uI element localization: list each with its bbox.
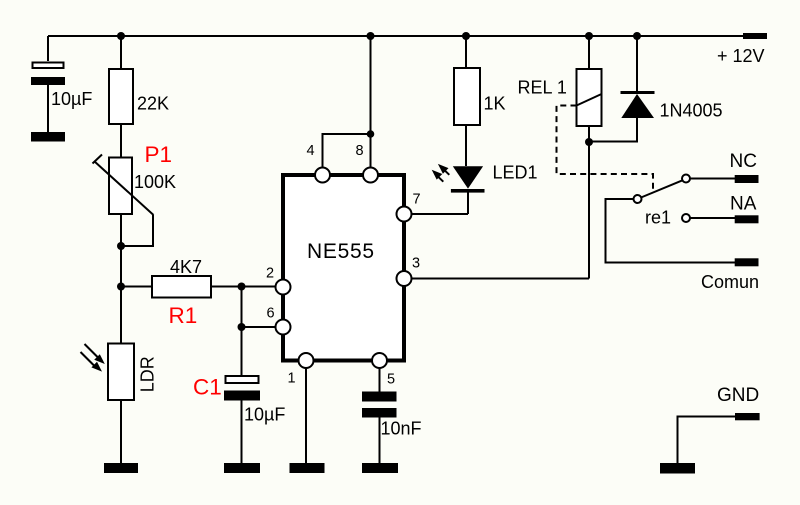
svg-text:1: 1: [288, 371, 296, 387]
wire tap to 4K7: [121, 286, 152, 288]
wire GND terminal to ground: [678, 417, 736, 464]
node junction pin6: [238, 323, 246, 331]
relay REL1 coil body: [577, 69, 602, 126]
svg-text:REL 1: REL 1: [518, 78, 567, 98]
wire 10nF to ground: [379, 418, 381, 464]
node junction pin2: [238, 283, 246, 291]
wire capacitor to ground: [47, 85, 49, 132]
LED emission arrow 1: [441, 167, 449, 175]
ground (under LDR): [104, 463, 138, 473]
switch re1 pivot contact: [634, 195, 642, 203]
svg-text:8: 8: [356, 143, 364, 159]
wire 4K7 to node: [211, 286, 242, 288]
pin 1: [299, 353, 314, 368]
ground (under pin 1): [290, 463, 325, 473]
wire wiper to lower terminal: [121, 215, 153, 246]
wire +12V top rail: [48, 35, 743, 37]
wire common to terminal: [606, 199, 736, 263]
node junction rail/22K: [117, 32, 125, 40]
switch NA contact: [682, 214, 690, 222]
svg-text:100K: 100K: [134, 172, 176, 192]
LDR light arrow 1: [85, 344, 99, 358]
wire pin 3 to relay branch: [412, 278, 590, 280]
wire node down to C1: [241, 327, 243, 375]
LED emission arrow 2: [435, 174, 443, 182]
node junction bracket/riser: [367, 130, 375, 138]
wire node to pin 2: [242, 286, 276, 288]
wire rail to 1K: [465, 36, 467, 68]
node junction rail/1K: [462, 32, 470, 40]
potentiometer P1 body: [109, 158, 132, 215]
LDR light arrow 2: [81, 352, 96, 367]
svg-text:6: 6: [267, 306, 275, 322]
LED LED1: [453, 166, 483, 188]
pin 8: [363, 168, 378, 183]
terminal GND: [735, 413, 760, 420]
svg-text:1K: 1K: [484, 94, 506, 114]
node junction rail/relay: [585, 32, 593, 40]
capacitor 10nF: [362, 392, 397, 402]
wire capacitor lead from rail: [47, 36, 49, 61]
terminal NC: [735, 175, 759, 183]
svg-text:GND: GND: [717, 385, 759, 406]
svg-text:Comun: Comun: [701, 272, 759, 292]
potentiometer P1 wiper end tick: [93, 155, 103, 164]
svg-text:LDR: LDR: [137, 356, 157, 392]
diode D1 1N4005: [621, 91, 655, 94]
resistor 1K: [454, 68, 480, 125]
relay armature diagonal: [577, 94, 602, 106]
wire LDR to ground: [120, 400, 122, 463]
svg-text:NE555: NE555: [307, 240, 375, 263]
node junction rail/pin8: [367, 32, 375, 40]
node junction relay/diode: [585, 138, 593, 146]
svg-text:5: 5: [387, 372, 395, 388]
wire rail to pin 8: [370, 36, 372, 168]
op-amp U1 NE555 body: [283, 175, 404, 361]
switch re1 arm: [641, 180, 683, 197]
ground (GND): [660, 463, 695, 474]
wire relay coil to node: [588, 126, 590, 142]
resistor R1 4K7: [152, 276, 211, 298]
ground (under 10uF): [31, 132, 65, 142]
terminal Comun: [735, 258, 759, 266]
svg-text:4K7: 4K7: [170, 257, 202, 277]
wire LED to pin 7: [467, 193, 469, 215]
pin 7: [397, 207, 412, 222]
pin 6: [276, 320, 291, 335]
wire rail to 22K: [120, 36, 122, 69]
pin 4: [315, 168, 330, 183]
wire P1 bottom to LDR: [120, 214, 122, 343]
svg-text:R1: R1: [169, 303, 198, 328]
svg-text:LED1: LED1: [493, 163, 538, 183]
wire rail to diode cathode: [636, 36, 638, 91]
wire pin4 bracket to pin8 riser: [323, 134, 371, 168]
wire node to pin 6: [242, 326, 276, 328]
wire C1 to ground: [241, 401, 243, 464]
svg-text:+ 12V: + 12V: [717, 46, 765, 66]
svg-text:10µF: 10µF: [244, 405, 285, 425]
svg-text:C1: C1: [193, 374, 222, 399]
svg-text:NA: NA: [730, 194, 757, 215]
pin 5: [372, 353, 387, 368]
wire relay/diode node down to pin3 wire: [588, 142, 590, 279]
terminal +12V: [743, 33, 767, 39]
svg-text:1N4005: 1N4005: [660, 101, 723, 121]
svg-text:10nF: 10nF: [381, 419, 422, 439]
svg-text:22K: 22K: [137, 94, 169, 114]
resistor 22K: [109, 69, 133, 124]
pin 3: [397, 271, 412, 286]
pin 2: [276, 280, 291, 295]
wire NA contact to terminal: [690, 217, 735, 219]
wire node down to pin6 node: [241, 287, 243, 328]
svg-text:3: 3: [412, 256, 420, 272]
ground (under 10nF): [362, 463, 398, 473]
wire rail to relay coil: [588, 36, 590, 69]
terminal NA: [735, 215, 759, 223]
node junction P1 wiper: [117, 242, 125, 250]
svg-text:7: 7: [413, 192, 421, 208]
potentiometer P1 wiper arm: [94, 161, 154, 215]
wire 22K to P1: [120, 124, 122, 158]
svg-text:2: 2: [266, 266, 274, 282]
wire pin 5 to 10nF: [379, 368, 381, 392]
svg-text:re1: re1: [645, 208, 671, 228]
capacitor 10uF (top-left, polarized): [33, 63, 64, 69]
svg-text:NC: NC: [730, 151, 757, 172]
ground (under C1): [224, 463, 260, 473]
wire diode anode to node: [589, 118, 637, 142]
dashed mechanical link relay to switch: [557, 106, 654, 191]
node junction R1 tap: [117, 283, 125, 291]
svg-text:P1: P1: [145, 142, 173, 167]
wire NC contact to terminal: [690, 178, 735, 180]
svg-text:4: 4: [307, 143, 315, 159]
svg-text:10µF: 10µF: [51, 89, 92, 109]
capacitor C1 (polarized): [226, 376, 259, 383]
wire pin 1 to ground: [305, 368, 307, 463]
node junction rail/diode: [633, 32, 641, 40]
photoresistor LDR body: [108, 344, 134, 401]
switch NC contact: [682, 175, 690, 183]
wire 1K to LED: [465, 125, 467, 166]
